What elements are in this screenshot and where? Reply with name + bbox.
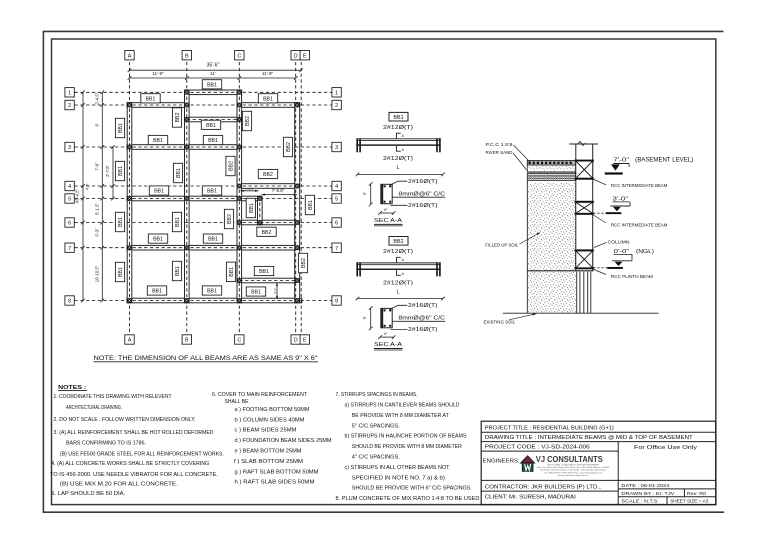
left dim line 2'-7.5" <box>112 147 114 199</box>
centerline beam x259.8 <box>259 197 261 225</box>
beam label BB1 <box>115 212 124 231</box>
svg-text:(BASEMENT LEVEL): (BASEMENT LEVEL) <box>635 158 693 164</box>
svg-text:No.12, First Floor, Anna Nagar: No.12, First Floor, Anna Nagar Main Road… <box>537 466 610 469</box>
grid bubble 3 <box>332 142 341 151</box>
title block row lines <box>481 431 716 433</box>
svg-text:EXISTING SOIL: EXISTING SOIL <box>484 320 516 325</box>
grid bubble 2 <box>65 100 74 109</box>
svg-text:8mmØ@6" C/C: 8mmØ@6" C/C <box>399 316 446 322</box>
svg-text:BB1: BB1 <box>207 289 217 295</box>
svg-text:BB1: BB1 <box>308 200 314 210</box>
svg-text:1. COORDINATE THIS DRAWING WIT: 1. COORDINATE THIS DRAWING WITH RELEVENT <box>54 394 172 400</box>
svg-text:1: 1 <box>68 90 71 96</box>
BB1 section cut mark bottom <box>397 146 401 151</box>
svg-text:RCC INTERMEDIATE BEAM: RCC INTERMEDIATE BEAM <box>611 183 668 188</box>
svg-text:SEC A-A: SEC A-A <box>374 342 402 348</box>
svg-text:BB2: BB2 <box>229 161 235 171</box>
svg-text:BB2: BB2 <box>301 258 307 268</box>
BB1 section stirrup label <box>392 196 445 198</box>
svg-text:8mmØ@6" C/C: 8mmØ@6" C/C <box>399 192 446 198</box>
beam row4 C-E <box>237 184 300 189</box>
gridline row 5 <box>75 198 332 200</box>
svg-text:4. (A) ALL CONCRETE WORKS SHAL: 4. (A) ALL CONCRETE WORKS SHALL BE STRIC… <box>51 461 209 467</box>
beam row2 C-E <box>237 103 300 108</box>
column junction <box>295 245 300 250</box>
svg-text:6: 6 <box>68 221 71 227</box>
beam right edge D/E vertical <box>295 103 300 303</box>
svg-text:BB1: BB1 <box>118 217 124 227</box>
beam detail BB1 label <box>389 112 408 121</box>
svg-text:SHOULD BE PROVIDE WITH 6" C/C: SHOULD BE PROVIDE WITH 6" C/C SPACINGS. <box>352 486 472 492</box>
svg-text:2'-4.5": 2'-4.5" <box>94 92 99 104</box>
grid bubble 4 <box>65 181 74 190</box>
beam X-box on column <box>576 161 593 178</box>
beam label BB1 <box>148 135 167 144</box>
VJ Consultants logo house <box>520 456 534 472</box>
level marker 3ft <box>610 205 630 207</box>
svg-text:f ) SLAB BOTTOM 25MM: f ) SLAB BOTTOM 25MM <box>234 459 303 465</box>
outer sheet border <box>43 31 724 512</box>
svg-text:BB2: BB2 <box>262 230 272 236</box>
grid bubble 3 <box>65 142 74 151</box>
left dim line segments <box>101 92 103 300</box>
dashed level line ngl <box>593 267 607 269</box>
column junction <box>237 145 242 150</box>
svg-text:d ) FOUNDATION BEAM SIDES 25MM: d ) FOUNDATION BEAM SIDES 25MM <box>235 438 332 444</box>
svg-text:2#12Ø(T): 2#12Ø(T) <box>383 156 413 162</box>
svg-text:7: 7 <box>68 246 71 252</box>
svg-text:2#16Ø(T): 2#16Ø(T) <box>408 203 438 209</box>
svg-text:BB1: BB1 <box>259 269 269 275</box>
BB1 section top bars label <box>390 181 408 185</box>
svg-text:7: 7 <box>335 246 338 252</box>
svg-text:11'-9": 11'-9" <box>262 71 274 76</box>
svg-text:5'-3": 5'-3" <box>94 228 99 237</box>
beam row1 B-C <box>185 90 242 95</box>
column junction <box>127 103 132 108</box>
svg-text:0'-0": 0'-0" <box>614 249 630 255</box>
svg-text:Tamil Nadu, India. Residential: Tamil Nadu, India. Residential - Commerc… <box>540 469 606 472</box>
beam label BB1 <box>202 80 221 89</box>
svg-text:2'-7.5": 2'-7.5" <box>105 165 110 177</box>
column junction <box>184 245 189 250</box>
grid bubble 2 <box>332 100 341 109</box>
svg-text:FILLED UP SOIL: FILLED UP SOIL <box>485 243 519 248</box>
grid bubble 6 <box>65 218 74 227</box>
svg-text:c) STIRRUPS IN ALL OTHER BEAMS: c) STIRRUPS IN ALL OTHER BEAMS NOT <box>345 465 450 471</box>
svg-text:2: 2 <box>335 103 338 109</box>
gridline row 3 <box>75 146 332 148</box>
beam column C vertical <box>237 90 242 303</box>
column junction <box>237 90 242 95</box>
svg-text:C: C <box>237 53 241 59</box>
svg-text:5: 5 <box>68 197 71 203</box>
svg-text:7'-0": 7'-0" <box>613 158 629 164</box>
BB2 section stirrup label <box>392 320 445 322</box>
svg-text:NOTE: THE DIMENSION OF ALL BEA: NOTE: THE DIMENSION OF ALL BEAMS ARE AS … <box>94 356 318 362</box>
dimension 35'-6" <box>130 69 302 71</box>
leader rcc intermediate beam 2 <box>593 215 606 224</box>
beam column B vertical <box>185 90 190 303</box>
svg-text:4: 4 <box>68 184 71 190</box>
gridline row 8 <box>75 300 332 302</box>
svg-text:PROJECT TITLE : RESIDENTIAL BU: PROJECT TITLE : RESIDENTIAL BUILDING (G+… <box>485 425 614 431</box>
column junction <box>184 103 189 108</box>
column junction <box>295 278 300 283</box>
svg-text:BB1: BB1 <box>229 267 235 277</box>
svg-text:COLUMN: COLUMN <box>608 240 630 245</box>
svg-text:BB1: BB1 <box>176 168 182 178</box>
beam row5 A-C ext <box>127 196 261 201</box>
beam label BB2 <box>258 169 277 178</box>
svg-text:L: L <box>397 165 400 171</box>
beam X-box on column <box>576 202 593 213</box>
filled up soil region <box>527 183 576 271</box>
beam row8 A-E <box>127 298 302 303</box>
column junction <box>127 145 132 150</box>
svg-text:DRAWN BY : Er. TJV: DRAWN BY : Er. TJV <box>621 491 675 497</box>
svg-text:BB1: BB1 <box>118 166 124 176</box>
svg-text:BB1: BB1 <box>393 115 403 121</box>
svg-text:BB1: BB1 <box>206 123 216 129</box>
ground line <box>503 312 659 314</box>
svg-text:SEC A-A: SEC A-A <box>374 218 402 224</box>
svg-text:11': 11' <box>210 71 216 76</box>
grid bubble C <box>235 51 244 60</box>
dimension 7'-9.8" <box>262 194 298 196</box>
svg-text:C: C <box>237 338 241 344</box>
small vertical dim 3'-3" <box>276 283 278 300</box>
column junction <box>237 220 242 225</box>
beam interior B-C y119.5 <box>185 117 242 122</box>
beam label BB1 <box>172 261 181 280</box>
beam label BB1 <box>172 212 181 231</box>
svg-text:b ) COLUMN SIDES 40MM: b ) COLUMN SIDES 40MM <box>235 417 305 423</box>
svg-text:Rev: R0: Rev: R0 <box>687 491 706 497</box>
svg-text:(B) USE FE500 GRADE STEEL FOR: (B) USE FE500 GRADE STEEL FOR ALL REINFO… <box>60 452 224 458</box>
svg-text:b) STIRRUPS IN HAUNCHE PORTION: b) STIRRUPS IN HAUNCHE PORTION OF BEAMS <box>345 434 468 440</box>
gridline row 7 <box>75 247 332 249</box>
svg-text:BB1: BB1 <box>154 189 164 195</box>
svg-text:BB1: BB1 <box>153 237 163 243</box>
svg-text:4.5": 4.5" <box>86 183 90 190</box>
svg-text:ENGINEERS:: ENGINEERS: <box>483 458 520 464</box>
beam label BB1 <box>226 262 235 281</box>
svg-text:DRAWING TITLE : INTERMEDIATE B: DRAWING TITLE : INTERMEDIATE BEAMS @ MID… <box>485 435 694 441</box>
beam label BB1 <box>203 234 222 243</box>
beam column A vertical <box>127 103 132 303</box>
grid bubble A <box>125 335 134 344</box>
svg-text:g ) RAFT SLAB BOTTOM 50MM: g ) RAFT SLAB BOTTOM 50MM <box>235 469 319 475</box>
svg-text:www.vjconsultants.in: www.vjconsultants.in <box>558 474 589 477</box>
svg-text:SPECIFIED IN NOTE NO. 7 a) & b: SPECIFIED IN NOTE NO. 7 a) & b) <box>352 475 445 481</box>
svg-text:BB1: BB1 <box>251 290 261 296</box>
svg-text:CONTRACTOR: JKR BUILDERS (P) L: CONTRACTOR: JKR BUILDERS (P) LTD., <box>485 484 601 490</box>
svg-text:SHALL BE: SHALL BE <box>225 399 250 405</box>
beam row3 A-C <box>127 145 242 150</box>
svg-text:1'-1.5": 1'-1.5" <box>245 187 253 191</box>
beam label BB1 <box>115 118 124 137</box>
beam label BB2 <box>283 137 292 156</box>
beam row6 C-E <box>237 220 300 225</box>
svg-text:3: 3 <box>68 145 71 151</box>
svg-text:RCC INTERMEDIATE BEAM: RCC INTERMEDIATE BEAM <box>611 223 668 228</box>
grid bubble 7 <box>332 243 341 252</box>
column junction <box>295 298 300 303</box>
svg-text:ARCHITECTURAL DRAWING.: ARCHITECTURAL DRAWING. <box>66 405 122 411</box>
svg-text:BB1: BB1 <box>118 267 124 277</box>
svg-text:E: E <box>303 53 307 59</box>
svg-text:D: D <box>294 338 298 344</box>
column junction <box>184 117 189 122</box>
column shaft right line <box>592 144 594 271</box>
svg-text:BARS CONFIRMING TO IS 1786.: BARS CONFIRMING TO IS 1786. <box>66 440 146 446</box>
svg-text:2#16Ø(T): 2#16Ø(T) <box>408 179 438 185</box>
svg-text:9': 9' <box>94 123 99 126</box>
svg-text:BB2: BB2 <box>227 214 233 224</box>
svg-text:DATE : 08-01-2024: DATE : 08-01-2024 <box>621 483 669 489</box>
svg-text:SCALE : N.T.S: SCALE : N.T.S <box>621 498 657 504</box>
svg-text:D: D <box>294 53 298 59</box>
grid bubble 5 <box>332 194 341 203</box>
svg-text:Cell : 98430 00000, 97890 0000: Cell : 98430 00000, 97890 00000 Email : … <box>544 471 602 474</box>
BB1 section cut mark top <box>397 133 401 138</box>
svg-text:B: B <box>185 338 189 344</box>
beam label BB1 <box>202 286 221 295</box>
gridline row 1 <box>75 91 332 93</box>
svg-text:BB2: BB2 <box>175 112 181 122</box>
beam label BB1 <box>254 266 273 275</box>
svg-text:L: L <box>397 289 400 295</box>
svg-text:2#16Ø(T): 2#16Ø(T) <box>408 303 438 309</box>
svg-text:11'-9": 11'-9" <box>152 71 164 76</box>
column junction <box>237 196 242 201</box>
column junction <box>237 184 242 189</box>
beam label BB2 <box>226 156 235 175</box>
grid bubble B <box>182 51 191 60</box>
svg-text:BB1: BB1 <box>175 217 181 227</box>
BB1 section A-A rectangle <box>381 184 392 203</box>
grid bubble 6 <box>332 218 341 227</box>
column junction <box>237 103 242 108</box>
beam label BB1 <box>141 94 160 103</box>
BB2 elevation right column <box>436 262 438 276</box>
beam label BB2 <box>172 108 181 127</box>
svg-text:BB2: BB2 <box>286 142 292 152</box>
svg-text:BB2: BB2 <box>393 239 403 245</box>
column junction <box>237 245 242 250</box>
gridline D <box>295 62 297 333</box>
column junction <box>257 196 262 201</box>
beam label BB1 <box>246 198 255 217</box>
gridline A <box>129 62 131 333</box>
beam label BB1 <box>258 94 277 103</box>
svg-text:A: A <box>128 338 132 344</box>
centerline beam y280.5 <box>239 280 299 282</box>
beam label BB1 <box>147 286 166 295</box>
svg-text:5: 5 <box>335 197 338 203</box>
grid bubble 7 <box>65 243 74 252</box>
column junction <box>184 298 189 303</box>
svg-text:8. PLUM CONCRETE OF MIX RATIO: 8. PLUM CONCRETE OF MIX RATIO 1:4:8 TO B… <box>336 496 480 502</box>
beam label BB1 <box>149 186 168 195</box>
svg-text:5" C/C SPACINGS.: 5" C/C SPACINGS. <box>352 423 400 429</box>
grid bubble E <box>300 51 309 60</box>
svg-text:2#16Ø(T): 2#16Ø(T) <box>408 327 438 333</box>
beam detail BB2 label <box>389 237 408 246</box>
column junction <box>237 298 242 303</box>
centerline beam y119.5 <box>187 119 240 121</box>
beam y280.5 C-E <box>237 278 300 283</box>
svg-text:43'-4.5": 43'-4.5" <box>75 188 80 203</box>
svg-text:c ) BEAM SIDES 25MM: c ) BEAM SIDES 25MM <box>235 428 297 434</box>
beam label BB1 <box>203 135 222 144</box>
small dim 1'-1.5" <box>241 190 259 192</box>
svg-text:35'-6": 35'-6" <box>207 63 220 69</box>
grid bubble 8 <box>65 296 74 305</box>
column junction <box>295 184 300 189</box>
column junction <box>127 196 132 201</box>
svg-text:3'-3": 3'-3" <box>273 288 277 294</box>
grid bubble E <box>300 335 309 344</box>
beam row7 A-E <box>127 245 300 250</box>
svg-text:NOTES :: NOTES : <box>58 385 86 391</box>
svg-text:BB1: BB1 <box>175 266 181 276</box>
grid bubble 4 <box>332 181 341 190</box>
svg-text:CLIENT: Mr. SURESH, MADURAI: CLIENT: Mr. SURESH, MADURAI <box>485 495 576 501</box>
gridline row 6 <box>75 222 332 224</box>
svg-text:STRUCTURAL CONSULTANTS - BUILD: STRUCTURAL CONSULTANTS - BUILDING DESIGN… <box>547 463 600 466</box>
gridline row 2 <box>75 104 332 106</box>
svg-text:8: 8 <box>335 299 338 305</box>
svg-text:a) STIRRUPS IN CANTILEVER BEAM: a) STIRRUPS IN CANTILEVER BEAMS SHOULD <box>345 403 460 409</box>
column junction <box>295 103 300 108</box>
left dim line total 43'-4.5" <box>82 92 84 300</box>
svg-text:8: 8 <box>68 299 71 305</box>
beam label BB2 <box>298 253 307 272</box>
gridline B <box>186 62 188 333</box>
gridline E <box>300 62 302 333</box>
existing soil region below plinth <box>527 271 576 313</box>
column top break line <box>569 143 598 145</box>
svg-text:BE PROVIDE WITH 8 MM DIAMETER: BE PROVIDE WITH 8 MM DIAMETER AT <box>352 413 449 419</box>
column below ground <box>576 272 578 314</box>
svg-text:SHEET SIZE = A3: SHEET SIZE = A3 <box>670 498 708 504</box>
svg-text:2#12Ø(T): 2#12Ø(T) <box>383 249 413 255</box>
svg-text:BB1: BB1 <box>249 203 255 213</box>
svg-text:5. LAP SHOULD BE 50 DIA.: 5. LAP SHOULD BE 50 DIA. <box>51 491 125 497</box>
BB2 section cut mark bottom <box>397 270 401 275</box>
svg-text:3'-0": 3'-0" <box>613 196 629 202</box>
grid bubble 5 <box>65 194 74 203</box>
level marker basement <box>611 164 620 170</box>
svg-text:BB1: BB1 <box>146 96 156 102</box>
column junction <box>127 298 132 303</box>
beam label BB1 <box>202 186 221 195</box>
svg-text:BB1: BB1 <box>153 138 163 144</box>
grid bubble C <box>235 335 244 344</box>
BB2 section cut mark top <box>397 257 401 262</box>
svg-text:h ) RAFT SLAB SIDES 50MM: h ) RAFT SLAB SIDES 50MM <box>235 480 315 486</box>
BB2 section bottom bars label <box>391 328 408 330</box>
leader rcc intermediate beam 1 <box>593 179 606 185</box>
beam label BB1 <box>115 262 124 281</box>
gridline C <box>238 62 240 333</box>
svg-text:e ) BEAM BOTTOM 25MM: e ) BEAM BOTTOM 25MM <box>235 449 302 455</box>
column junction <box>184 145 189 150</box>
column junction <box>237 278 242 283</box>
svg-text:(B) USE MIX M.20 FOR ALL CONC: (B) USE MIX M.20 FOR ALL CONCRETE. <box>60 481 178 487</box>
svg-text:6: 6 <box>335 221 338 227</box>
beam label BB1 <box>173 163 182 182</box>
svg-text:a ) FOOTING BOTTOM 50MM: a ) FOOTING BOTTOM 50MM <box>235 407 310 413</box>
leader rcc plinth beam <box>593 269 606 275</box>
grid bubble 1 <box>65 88 74 97</box>
grid bubble A <box>125 51 134 60</box>
svg-text:3. (A) ALL REINFORCEMENT SHALL: 3. (A) ALL REINFORCEMENT SHALL BE HOT RO… <box>54 430 214 436</box>
grid bubble 8 <box>332 296 341 305</box>
BB2 elevation beam <box>356 262 440 264</box>
svg-text:B: B <box>185 53 189 59</box>
BB1 section depth dim 9" <box>370 184 372 205</box>
PCC slab band <box>527 161 576 166</box>
dimension 11'-9" / 11' / 11'-9" <box>130 77 296 79</box>
svg-text:7'-6": 7'-6" <box>94 162 99 171</box>
svg-text:1: 1 <box>335 90 338 96</box>
column junction <box>295 220 300 225</box>
svg-text:6. COVER TO MAIN REINFORCEMENT: 6. COVER TO MAIN REINFORCEMENT <box>212 392 307 398</box>
BB2 section top bars label <box>390 305 408 309</box>
svg-text:BB1: BB1 <box>208 138 218 144</box>
svg-text:2#12Ø(T): 2#12Ø(T) <box>383 125 413 131</box>
beam label BB1 <box>148 234 167 243</box>
BB1 section bottom bars label <box>391 204 408 206</box>
svg-text:7. STIRRUPS SPACINGS IN BEAMS.: 7. STIRRUPS SPACINGS IN BEAMS. <box>336 392 418 398</box>
svg-text:E: E <box>303 338 307 344</box>
column junction <box>237 117 242 122</box>
svg-text:5'-1.5": 5'-1.5" <box>94 203 99 215</box>
level marker ngl <box>612 260 632 262</box>
svg-text:2: 2 <box>68 103 71 109</box>
title block outer box <box>481 421 716 504</box>
svg-text:RCC PLINTH BEAM: RCC PLINTH BEAM <box>611 274 653 279</box>
svg-text:4" C/C SPACINGS.: 4" C/C SPACINGS. <box>352 455 400 461</box>
beam interior x259.8 vertical <box>258 196 263 225</box>
BB1 elevation left column <box>356 138 358 152</box>
svg-text:TO IS 456-2000. USE NEEDLE VIB: TO IS 456-2000. USE NEEDLE VIBRATOR FOR … <box>50 472 218 478</box>
svg-text:(NGL): (NGL) <box>636 249 654 255</box>
beam label BB1 <box>201 120 220 129</box>
column junction <box>127 245 132 250</box>
svg-text:3: 3 <box>335 145 338 151</box>
BB1 section width dim 6" <box>380 212 394 214</box>
svg-text:VJ CONSULTANTS: VJ CONSULTANTS <box>536 455 603 464</box>
svg-text:BB1: BB1 <box>207 82 217 88</box>
BB2 section A-A rectangle <box>381 308 392 327</box>
dense gravel band <box>527 173 576 180</box>
svg-text:BB1: BB1 <box>118 123 124 133</box>
svg-text:P.C.C 1:4:8: P.C.C 1:4:8 <box>486 142 514 147</box>
river sand light band <box>527 165 576 172</box>
svg-text:SHOULD BE PROVIDE WITH 8 MM DI: SHOULD BE PROVIDE WITH 8 MM DIAMETER <box>352 444 462 450</box>
grid bubble D <box>291 51 300 60</box>
grid bubble B <box>182 335 191 344</box>
BB2 section width dim 6" <box>380 336 394 338</box>
svg-text:BB2: BB2 <box>263 172 273 178</box>
beam label BB1 <box>246 287 265 296</box>
beam label BB2 <box>257 227 276 236</box>
svg-text:BB1: BB1 <box>152 289 162 295</box>
